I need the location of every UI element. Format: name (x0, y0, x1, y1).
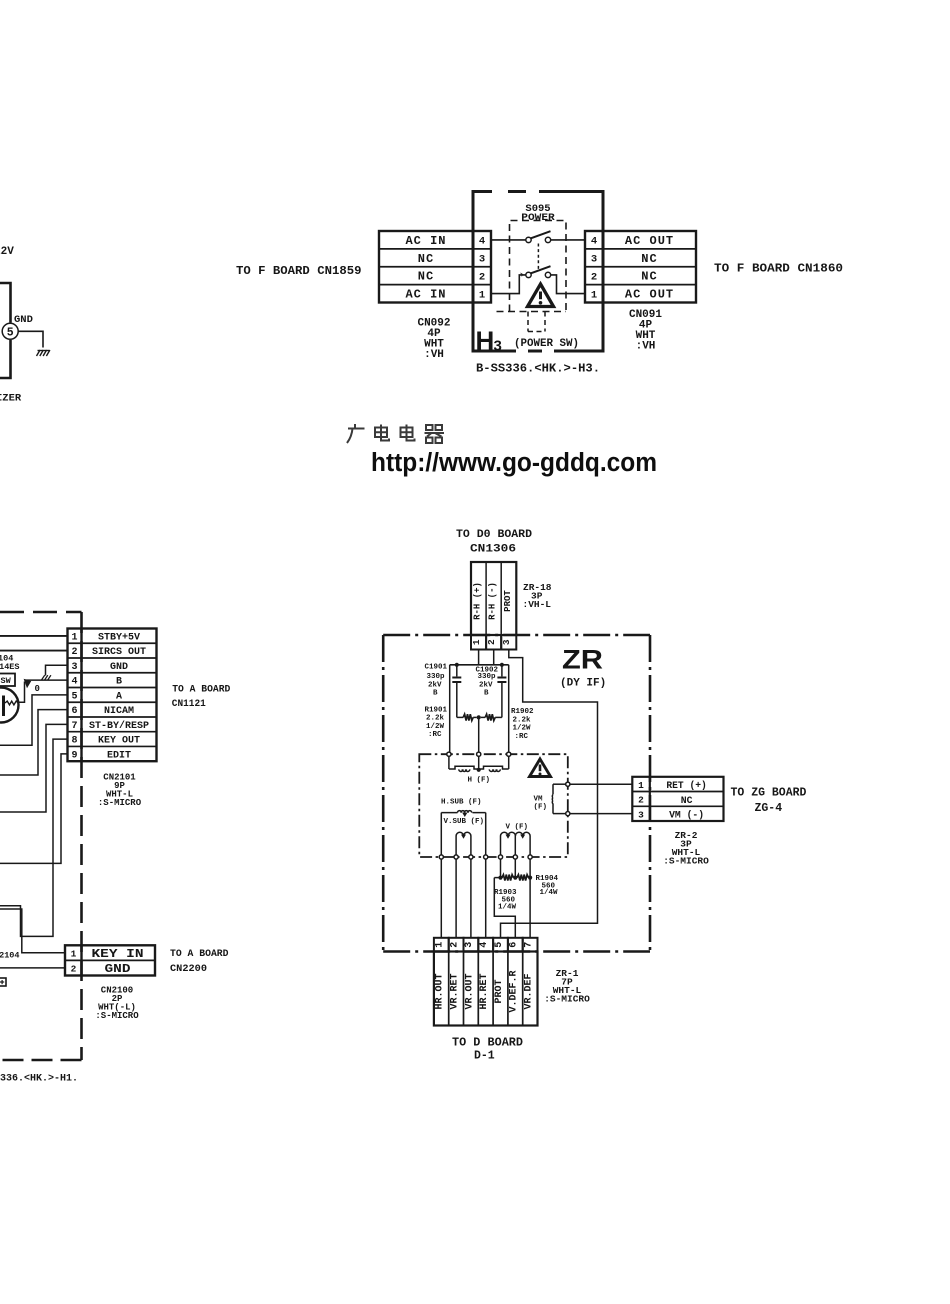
svg-text:STBY+5V: STBY+5V (98, 632, 140, 643)
board box H3 (473, 189, 603, 355)
wire switch contact 1 to pin4 CN091 (551, 239, 585, 241)
board designator ZR (DY IF) (560, 645, 606, 690)
wire CN2101 pin2 (0, 650, 68, 652)
svg-text::RC: :RC (428, 731, 442, 739)
svg-text:ZR: ZR (562, 645, 603, 675)
svg-text:2: 2 (638, 795, 644, 806)
svg-text:VM (-): VM (-) (669, 810, 704, 821)
connector CN2101 (9P) (68, 629, 157, 762)
svg-text:NC: NC (641, 270, 657, 284)
svg-text:NC: NC (641, 252, 657, 266)
svg-text:B: B (484, 689, 489, 697)
svg-text:TO A BOARD: TO A BOARD (172, 684, 230, 695)
damper top rail (450, 664, 509, 666)
wire CN2101 pin1 (0, 635, 68, 637)
svg-text:TO F BOARD CN1860: TO F BOARD CN1860 (714, 263, 843, 276)
svg-text:3: 3 (501, 639, 512, 645)
svg-text:2kV: 2kV (479, 681, 493, 689)
nodes DY enclosure bottom (439, 855, 532, 859)
board box ZR (dash-dot) (383, 635, 650, 952)
svg-text::S-MICRO: :S-MICRO (95, 1011, 139, 1021)
svg-text:6: 6 (71, 706, 77, 717)
resistor R1902 (481, 714, 502, 720)
svg-text:4: 4 (591, 236, 597, 248)
svg-text:2: 2 (71, 964, 77, 975)
svg-text:1: 1 (638, 780, 644, 791)
wire arrow to transistor (19, 682, 25, 703)
small icon (clipped) (0, 978, 6, 986)
svg-text:PROT: PROT (503, 590, 513, 612)
wire node5 to damper row (500, 859, 502, 878)
node VM bottom / VM(-) (566, 812, 570, 816)
wire ZR-18 pin2 to damper rail (493, 650, 495, 665)
wire node to ZR-1 pin4 (485, 859, 487, 938)
connector ZR-18 pin boxes 1 2 3 (471, 635, 516, 650)
svg-text:8: 8 (71, 736, 77, 747)
chassis ground symbol (37, 350, 50, 356)
svg-text:TO F BOARD CN1859: TO F BOARD CN1859 (236, 265, 362, 278)
junction C1901 top (455, 663, 459, 667)
svg-text:RET (+): RET (+) (666, 780, 707, 791)
svg-text:(DY IF): (DY IF) (560, 678, 606, 690)
wire RET(+) to ZR-2 pin1 (570, 783, 632, 785)
svg-text:V.SUB (F): V.SUB (F) (444, 818, 485, 826)
svg-text:4: 4 (479, 236, 485, 248)
svg-text:NICAM: NICAM (104, 706, 134, 717)
svg-text:0: 0 (35, 684, 40, 694)
svg-text:B-SS336.<HK.>-H3.: B-SS336.<HK.>-H3. (476, 363, 600, 376)
pin 5 (GND) circle (2, 323, 18, 339)
watermark chinese characters (347, 424, 444, 443)
wire CN2100 pin2 (0, 967, 65, 969)
inductor V.SUB (F) (456, 832, 471, 857)
svg-text:CN1121: CN1121 (172, 698, 206, 709)
label VM (F) (534, 796, 548, 812)
svg-text:D-1: D-1 (474, 1050, 495, 1063)
svg-text:3: 3 (464, 942, 475, 948)
wire pin5 to chassis ground (18, 331, 43, 347)
svg-text:H.SUB (F): H.SUB (F) (441, 799, 482, 807)
svg-text:NC: NC (418, 270, 434, 284)
svg-text:AC OUT: AC OUT (625, 234, 674, 248)
node H-coil left (447, 752, 451, 756)
svg-text:1/4W: 1/4W (498, 904, 517, 912)
svg-text:1: 1 (71, 949, 77, 960)
wire node to ZR-1 pin2 (455, 859, 457, 938)
board designator H3 (POWER SW) (476, 326, 580, 356)
svg-text:5: 5 (7, 327, 14, 340)
transistor Q2104 (clipped) (0, 688, 19, 723)
connector CN092 (left, 4P) (379, 231, 491, 303)
svg-text:3: 3 (591, 254, 597, 266)
connector CN2100 (2P) (65, 945, 155, 976)
svg-text:H: H (476, 326, 495, 356)
wire node7 to ZR-1 pin7 (529, 859, 531, 938)
wire CN2100 pin1 (0, 909, 65, 953)
wire CN2101 pin6 (0, 710, 68, 775)
wire CN2101 pin4 (25, 679, 68, 681)
connector ZR-2 (3P) (632, 777, 723, 821)
junction R row right (528, 876, 532, 880)
svg-text:GND: GND (110, 662, 128, 673)
wire CN2101 pin8 (0, 739, 68, 936)
svg-text:2: 2 (479, 271, 485, 283)
svg-text:2.2k: 2.2k (513, 716, 532, 724)
connector ZR-1 name boxes (434, 952, 538, 1026)
label R1904 560 1/4W (536, 875, 559, 897)
svg-text:R1902: R1902 (511, 708, 534, 716)
svg-text:330p: 330p (478, 673, 497, 681)
wire CN2101 pin5 (0, 695, 68, 745)
svg-text:H (F): H (F) (468, 777, 491, 785)
svg-text:7: 7 (523, 942, 534, 948)
svg-text:CN1306: CN1306 (470, 544, 516, 556)
svg-text:1: 1 (479, 289, 485, 301)
wire rail right to H-coil node (508, 665, 510, 754)
label C1902 330p 2kV B (476, 666, 499, 697)
switch contact S095-A (526, 231, 551, 242)
svg-text:http://www.go-gddq.com: http://www.go-gddq.com (371, 449, 657, 477)
speck artifact (520, 273, 523, 277)
svg-text::VH: :VH (424, 349, 444, 361)
resistor R1904 (515, 875, 530, 881)
svg-text:SW: SW (1, 676, 12, 686)
svg-text:1: 1 (471, 639, 482, 645)
wire ZR-18 pin1 to damper rail (478, 650, 480, 665)
svg-text:4: 4 (71, 677, 77, 688)
wire pin1 CN092 to switch contact 2 (491, 275, 526, 294)
capacitor C1901 (452, 665, 461, 718)
resistor R1903 (494, 875, 515, 881)
svg-text:1: 1 (435, 942, 446, 948)
svg-text:V (F): V (F) (506, 824, 529, 832)
svg-text:12V: 12V (0, 246, 14, 258)
svg-text:ZG-4: ZG-4 (755, 802, 783, 815)
svg-text:B: B (433, 689, 438, 697)
svg-text:2: 2 (71, 647, 77, 658)
chassis ground (small) (42, 675, 51, 680)
svg-text:R-H (-): R-H (-) (488, 582, 498, 620)
connector ZR-18 (3P vertical) (471, 562, 516, 635)
svg-text:5: 5 (71, 691, 77, 702)
svg-text:GND: GND (105, 962, 131, 976)
svg-text:TO D BOARD: TO D BOARD (452, 1037, 523, 1050)
svg-text:KEY OUT: KEY OUT (98, 736, 140, 747)
label C1901 330p 2kV B (425, 664, 448, 698)
svg-text:5: 5 (494, 942, 505, 948)
svg-text:(F): (F) (534, 804, 548, 812)
svg-text:2.2k: 2.2k (426, 715, 445, 723)
junction damper centre (477, 715, 481, 719)
svg-text::S-MICRO: :S-MICRO (98, 798, 142, 808)
label TO A BOARD CN1121 (172, 684, 231, 709)
warning triangle (hot) inside H3 (528, 284, 554, 307)
svg-text:3: 3 (638, 809, 644, 820)
svg-text:AC OUT: AC OUT (625, 288, 674, 302)
node H-coil centre (477, 752, 481, 756)
svg-text:PROT: PROT (494, 979, 505, 1003)
svg-text:2: 2 (486, 639, 497, 645)
warning triangle (DY) (530, 759, 551, 777)
wire node to ZR-1 pin3 (470, 859, 472, 938)
svg-text::S-MICRO: :S-MICRO (663, 856, 709, 867)
inductor H.SUB (F) (441, 811, 485, 857)
svg-text::RC: :RC (515, 733, 529, 741)
DY coil enclosure (dash-dot) (419, 754, 568, 857)
wire CN2101 pin3 to ground (46, 665, 68, 675)
svg-text:1: 1 (71, 632, 77, 643)
svg-text:B: B (116, 677, 122, 688)
wire centre tap (478, 717, 480, 754)
label CN091 4P WHT :VH (629, 309, 662, 353)
label CN2101 9P WHT-L :S-MICRO (98, 772, 142, 808)
svg-text:A: A (116, 691, 122, 702)
label R1902 2.2k 1/2W :RC (511, 708, 534, 741)
wire node6 to damper row (514, 859, 516, 878)
svg-text:KEY IN: KEY IN (92, 947, 144, 961)
svg-text:6: 6 (509, 942, 520, 948)
junction R row left (498, 876, 502, 880)
wire CN2101 pin7 (0, 724, 68, 812)
board box H1 (dash-dot, clipped) (0, 612, 82, 1060)
label SW box (0, 674, 15, 687)
inductor V (F) (501, 832, 531, 857)
wire node to ZR-1 pin1 (440, 859, 442, 938)
svg-text:EDIT: EDIT (107, 750, 131, 761)
svg-text:1/4W: 1/4W (540, 889, 559, 897)
svg-text:CN2200: CN2200 (170, 963, 207, 974)
svg-text::VH-L: :VH-L (523, 599, 552, 610)
switch S095 dashed enclosure (510, 221, 567, 312)
label TO ZG BOARD ZG-4 (731, 787, 807, 816)
svg-text:S2104: S2104 (0, 951, 20, 961)
capacitor C1902 (497, 665, 506, 718)
label ZR-18 3P :VH-L (523, 582, 552, 610)
label TO D0 BOARD CN1306 (456, 529, 532, 556)
svg-text::VH: :VH (636, 341, 656, 353)
adjustment arrow (24, 679, 32, 688)
svg-text:GND: GND (14, 314, 33, 326)
junction C1902 top (500, 663, 504, 667)
label ZR-2 3P WHT-L :S-MICRO (663, 830, 709, 867)
junction R row centre (513, 876, 517, 880)
svg-text:VR.DEF: VR.DEF (524, 973, 535, 1009)
svg-text:B-SS336.<HK.>-H1.: B-SS336.<HK.>-H1. (0, 1074, 78, 1085)
wire switch contact 2 to pin1 CN091 (551, 275, 585, 294)
node H-coil right (507, 752, 511, 756)
label CN092 4P WHT :VH (417, 318, 450, 362)
svg-text:1/2W: 1/2W (426, 723, 445, 731)
svg-text:TO D0 BOARD: TO D0 BOARD (456, 529, 532, 541)
svg-text:3: 3 (479, 254, 485, 266)
mechanical link (dashed) (537, 244, 539, 272)
connector CN091 (right, 4P) (585, 231, 696, 303)
svg-text:IZER: IZER (0, 393, 22, 405)
svg-text:HR.RET: HR.RET (479, 973, 490, 1009)
svg-text:V.DEF.R: V.DEF.R (509, 970, 520, 1012)
switch contact S095-B (526, 266, 551, 277)
svg-text:HR.OUT: HR.OUT (435, 973, 446, 1009)
svg-text:2: 2 (449, 942, 460, 948)
resistor R1901 (457, 714, 477, 720)
svg-text:NC: NC (681, 795, 693, 806)
svg-text:TO ZG BOARD: TO ZG BOARD (731, 787, 807, 800)
wire VM(-) to ZR-2 pin3 (570, 813, 632, 815)
svg-text:VR.OUT: VR.OUT (464, 973, 475, 1009)
wire damper row to ZR-1 pin6 (494, 878, 515, 938)
svg-text:3: 3 (494, 338, 502, 355)
svg-text:C1901: C1901 (425, 664, 448, 672)
svg-text:1: 1 (591, 289, 597, 301)
label ZR-1 7P WHT-L :S-MICRO (544, 968, 590, 1005)
svg-text:1/2W: 1/2W (513, 725, 532, 733)
svg-text:2: 2 (591, 271, 597, 283)
svg-text:R1901: R1901 (425, 706, 448, 714)
svg-text:-14ES: -14ES (0, 662, 20, 672)
wire pin4 CN092 to switch contact 1 (491, 239, 526, 241)
svg-text:7: 7 (71, 721, 77, 732)
svg-text:R-H (+): R-H (+) (473, 582, 483, 620)
svg-text:4: 4 (479, 942, 490, 948)
inductor VM (F) (552, 784, 568, 813)
svg-text:3: 3 (71, 662, 77, 673)
svg-text:VM: VM (534, 796, 544, 804)
label TO D BOARD D-1 (452, 1037, 523, 1063)
inductor H coil (449, 756, 509, 772)
label CN2100 2P WHT(-L) :S-MICRO (95, 986, 139, 1022)
svg-text:TO A BOARD: TO A BOARD (170, 948, 229, 959)
svg-text:NC: NC (418, 252, 434, 266)
connector ZR-1 pin boxes 1-7 (434, 938, 538, 952)
label TO A BOARD CN2200 (170, 948, 229, 974)
switch S095 label stub (dashed) (528, 312, 545, 332)
svg-text:SIRCS OUT: SIRCS OUT (92, 647, 146, 658)
svg-text:AC IN: AC IN (405, 288, 446, 302)
label R1903 560 1/4W (494, 889, 517, 912)
svg-text:POWER: POWER (521, 212, 555, 224)
node VM top / RET(+) (566, 782, 570, 786)
svg-text:2kV: 2kV (428, 681, 442, 689)
svg-text:ST-BY/RESP: ST-BY/RESP (89, 720, 149, 732)
svg-text:330p: 330p (427, 673, 446, 681)
wire PROT net: ZR-18 pin3 to ZR-1 pin5 (501, 650, 598, 938)
value label S095 POWER (521, 203, 555, 224)
wire CN2101 pin9 (0, 754, 68, 864)
svg-text:VR.RET: VR.RET (450, 973, 461, 1009)
svg-text:(POWER SW): (POWER SW) (514, 338, 579, 350)
svg-text::S-MICRO: :S-MICRO (544, 994, 590, 1005)
label R1901 2.2k 1/2W :RC (425, 706, 448, 739)
svg-text:AC IN: AC IN (405, 234, 446, 248)
svg-text:9: 9 (71, 750, 77, 761)
component box edge (clipped stabilizer) (0, 283, 11, 378)
wire rail left to H-coil node (449, 665, 451, 754)
